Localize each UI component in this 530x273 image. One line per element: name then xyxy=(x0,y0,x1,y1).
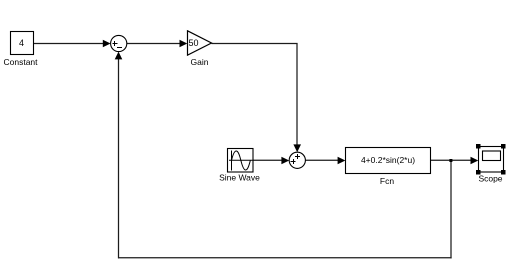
svg-text:4+0.2*sin(2*u): 4+0.2*sin(2*u) xyxy=(361,155,415,165)
svg-text:Sine Wave: Sine Wave xyxy=(219,173,260,183)
svg-text:Gain: Gain xyxy=(191,57,209,67)
svg-text:4: 4 xyxy=(19,38,24,48)
svg-text:Constant: Constant xyxy=(3,57,38,67)
svg-text:50: 50 xyxy=(189,38,199,48)
svg-text:Fcn: Fcn xyxy=(380,176,394,186)
svg-text:Scope: Scope xyxy=(478,174,502,184)
